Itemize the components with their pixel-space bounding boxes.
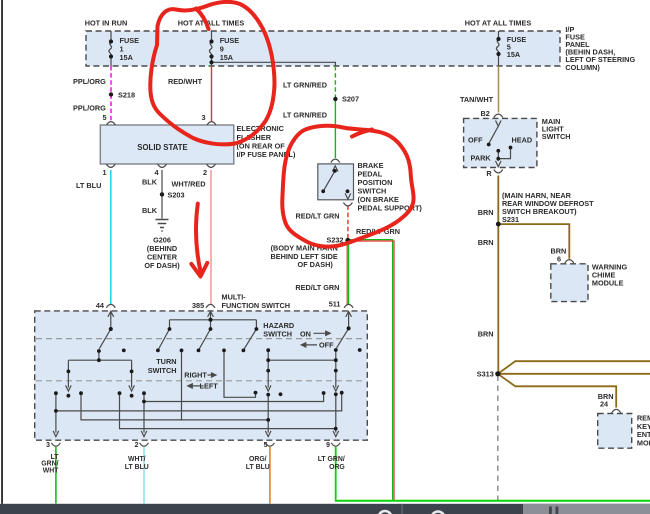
svg-text:B2: B2 [481,109,490,118]
svg-text:OF DASH): OF DASH) [144,261,180,270]
svg-text:HOT AT ALL TIMES: HOT AT ALL TIMES [465,19,532,28]
svg-text:LT BLU: LT BLU [125,464,149,471]
svg-text:5: 5 [102,113,106,122]
svg-text:RED/LT GRN: RED/LT GRN [295,283,339,292]
svg-text:R: R [486,169,492,178]
svg-text:OFF: OFF [319,340,334,349]
svg-text:S313: S313 [477,369,494,378]
svg-text:ORG/: ORG/ [249,456,267,463]
svg-text:1: 1 [102,168,106,177]
svg-text:BRN: BRN [478,330,494,339]
svg-text:LT GRN/RED: LT GRN/RED [283,111,327,120]
svg-text:385: 385 [192,301,204,310]
svg-text:SWITCH: SWITCH [542,132,571,141]
svg-text:15A: 15A [120,53,134,62]
svg-text:S231: S231 [502,215,519,224]
svg-text:FUNCTION SWITCH: FUNCTION SWITCH [222,301,291,310]
svg-text:HEAD: HEAD [512,136,533,145]
svg-text:6: 6 [557,254,561,263]
svg-text:PPL/ORG: PPL/ORG [73,104,106,113]
svg-text:15A: 15A [220,53,234,62]
svg-text:3: 3 [46,442,50,449]
svg-text:ON: ON [300,329,311,338]
svg-text:2: 2 [135,442,139,449]
svg-text:MOD: MOD [637,438,650,447]
svg-text:S207: S207 [342,95,359,104]
svg-text:WHT/: WHT/ [128,456,146,463]
svg-text:OFF: OFF [468,136,483,145]
svg-text:RED/WHT: RED/WHT [168,77,203,86]
svg-text:PPL/ORG: PPL/ORG [73,77,106,86]
svg-text:24: 24 [600,399,609,408]
svg-text:LT GRN/RED: LT GRN/RED [283,81,327,90]
svg-text:LT GRN/: LT GRN/ [318,456,345,463]
svg-text:15A: 15A [507,50,521,59]
svg-text:S203: S203 [168,191,185,200]
svg-text:BRN: BRN [478,208,494,217]
svg-text:RED/LT GRN: RED/LT GRN [296,212,340,221]
svg-text:SWITCH: SWITCH [148,366,177,375]
svg-text:511: 511 [329,300,341,309]
svg-text:WHT/RED: WHT/RED [171,180,205,189]
svg-text:2: 2 [203,168,207,177]
svg-text:TAN/WHT: TAN/WHT [460,95,494,104]
svg-text:WHT: WHT [43,467,59,474]
svg-text:BRN: BRN [478,238,494,247]
svg-text:RIGHT: RIGHT [184,370,207,379]
svg-text:SOLID STATE: SOLID STATE [137,143,187,152]
svg-text:LT BLU: LT BLU [246,464,270,471]
svg-text:ORG: ORG [329,464,345,471]
svg-text:9: 9 [326,442,330,449]
svg-text:S218: S218 [118,91,135,100]
svg-text:BLK: BLK [142,206,158,215]
svg-text:44: 44 [96,301,105,310]
svg-text:PARK: PARK [471,153,492,162]
svg-text:TURN: TURN [156,357,176,366]
svg-text:3: 3 [201,113,205,122]
svg-text:COLUMN): COLUMN) [565,63,600,72]
svg-text:BLK: BLK [142,178,158,187]
svg-text:OF DASH): OF DASH) [298,260,334,269]
svg-text:5: 5 [264,442,268,449]
svg-text:HOT IN RUN: HOT IN RUN [85,19,128,28]
svg-text:MODULE: MODULE [592,279,624,288]
svg-text:SWITCH: SWITCH [263,329,292,338]
svg-text:LT BLU: LT BLU [76,181,101,190]
svg-text:HOT AT ALL TIMES: HOT AT ALL TIMES [178,19,245,28]
